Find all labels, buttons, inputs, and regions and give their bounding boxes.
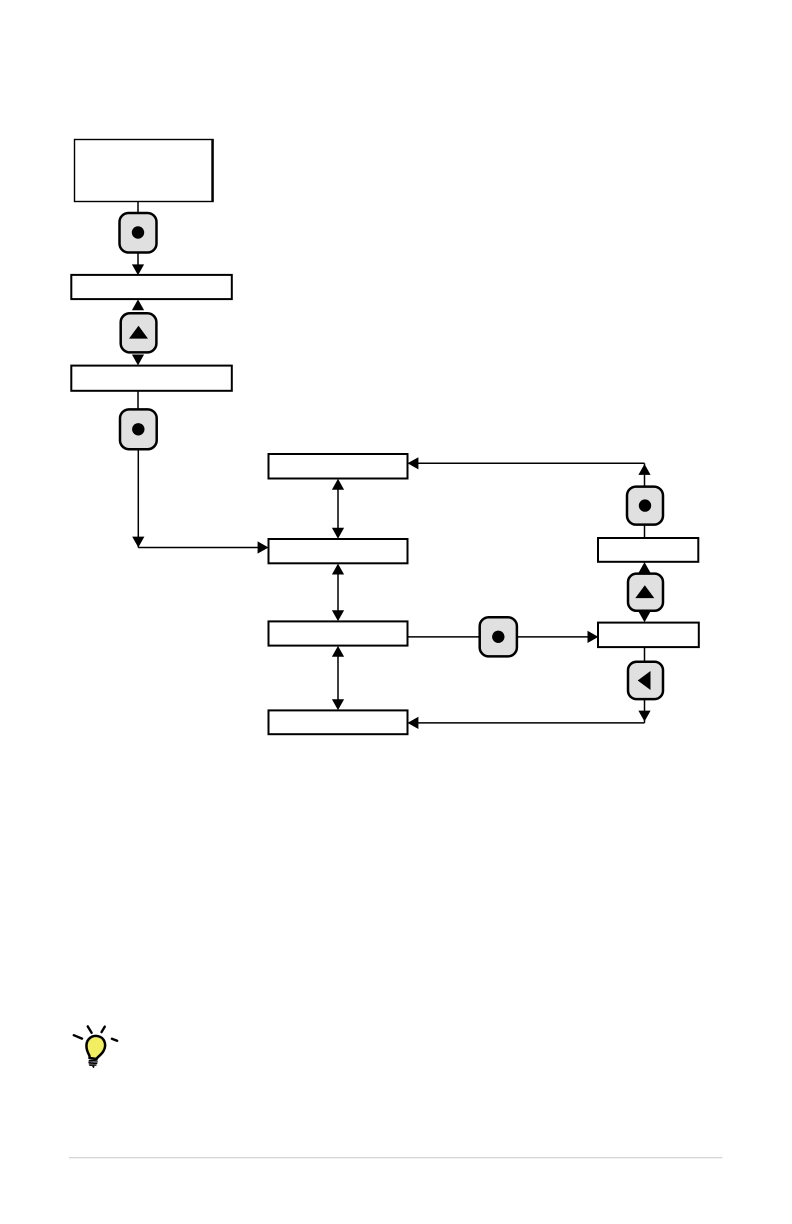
button B6 (left triangle, right column) xyxy=(628,662,663,699)
wire R2 to button6 xyxy=(644,647,646,662)
wire button6 down, elbow left into row D with arrowheads xyxy=(408,699,651,729)
rect row D (middle column) xyxy=(269,710,408,734)
arrow down into R2 top xyxy=(638,611,650,622)
arrow up into R1 bottom xyxy=(638,562,650,573)
footer rule xyxy=(69,1157,722,1159)
button B2 (up triangle) xyxy=(121,313,157,352)
arrow down into rect2 top xyxy=(132,355,144,366)
button B3 (dot) xyxy=(120,409,157,449)
arrow up into rect1 bottom xyxy=(132,299,144,310)
double arrow C-D xyxy=(332,646,344,710)
wire box to button1 xyxy=(137,202,139,215)
button B4 (dot, right column) xyxy=(627,487,663,525)
wire button3 down, elbow right into row B with arrowheads xyxy=(132,449,268,553)
button B7 (dot, between C and R2) xyxy=(480,617,517,656)
rect R2 (right column) xyxy=(598,623,699,648)
rect row B (middle column) xyxy=(269,539,408,563)
rays xyxy=(74,1035,82,1038)
wire button7 to R2 with right arrowhead xyxy=(517,631,599,643)
double arrow A-B xyxy=(332,479,344,539)
button B1 (dot) xyxy=(120,213,157,253)
button B5 (up triangle, right column) xyxy=(628,574,663,611)
wire rect2 to button3 xyxy=(137,391,139,410)
wire row A to right column top with arrowheads xyxy=(408,457,651,487)
rect row C (middle column) xyxy=(269,621,408,645)
box Standby (top-left) xyxy=(75,139,214,202)
lightbulb tip icon xyxy=(74,1026,117,1067)
wire row C to button7 xyxy=(408,636,481,638)
double arrow B-C xyxy=(332,564,344,622)
wire button1 to rect1 with down arrowhead xyxy=(132,253,144,276)
rect row A (middle column) xyxy=(269,454,408,479)
wire button4 to rect R1 xyxy=(644,525,646,539)
rect row1 (left column) xyxy=(71,275,232,299)
rect row2 (left column) xyxy=(71,366,232,391)
rect R1 (right column) xyxy=(598,538,698,562)
